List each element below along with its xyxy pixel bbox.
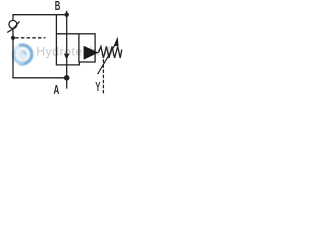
adjustment arrow shaft through spring <box>98 43 116 74</box>
svg-text:A: A <box>54 82 60 97</box>
node: junction dot pilot takeoff <box>11 36 15 40</box>
wire: bottom horizontal to A junction <box>12 77 66 79</box>
node: junction dot at A <box>64 75 70 81</box>
spring zigzag <box>99 46 122 58</box>
flow direction arrow on B line <box>64 54 69 60</box>
adjustment arrow head <box>114 37 119 47</box>
valve poppet triangle <box>84 46 99 60</box>
wire: port A stub <box>66 78 68 89</box>
wire: left vertical below check valve <box>12 29 14 78</box>
pilot line dashed horizontal <box>15 37 45 39</box>
check valve ball <box>9 20 17 28</box>
svg-text:B: B <box>55 0 61 13</box>
wire: left vertical upper (corner to check valve) <box>12 15 14 21</box>
wire: top horizontal from check valve to B line <box>12 14 66 16</box>
drain line dashed vertical <box>102 59 104 94</box>
wire: branch from vertical lines to valve square top <box>56 33 79 35</box>
svg-text:Y: Y <box>95 80 101 94</box>
wire: branch vertical from top line down to valve bottom feed <box>56 15 79 65</box>
valve body square <box>79 34 95 62</box>
check valve seat line <box>7 21 19 32</box>
node: junction dot B line / top horizontal <box>65 13 69 17</box>
wire: B line vertical <box>66 11 68 78</box>
